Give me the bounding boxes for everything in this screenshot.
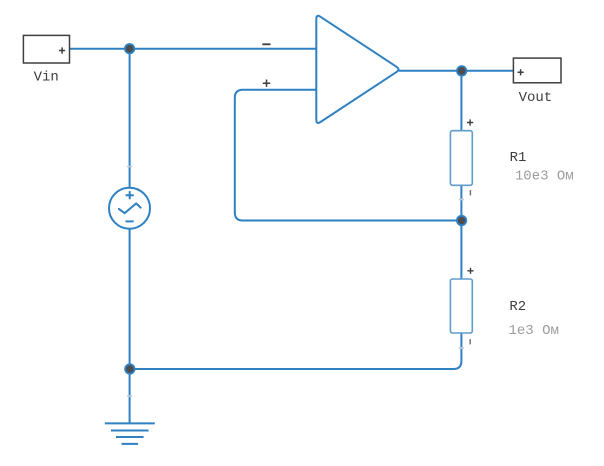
wire Vin to node A	[70, 48, 130, 50]
node B junction dot (output node)	[457, 66, 466, 75]
tick mark on wire above source V1	[127, 166, 132, 168]
minus label at op-amp inverting input	[262, 43, 270, 45]
tick mark on wire above ground	[127, 395, 132, 397]
plus mark inside Vin box	[59, 47, 65, 53]
resistor R1 body	[450, 131, 472, 186]
wire node B down to R1 top	[460, 71, 462, 131]
node D junction dot (bottom rail)	[125, 364, 134, 373]
plus polarity mark above R2	[467, 268, 473, 274]
wire feedback node C to op-amp non-inverting input	[235, 90, 462, 221]
op-amp U1 triangle	[316, 16, 398, 123]
terminal box Vout	[513, 58, 561, 83]
wire R1 bottom to node C	[460, 185, 462, 220]
minus mark inside source V1	[126, 220, 134, 222]
plus polarity mark above R1	[467, 119, 473, 125]
node A junction dot	[125, 44, 134, 53]
waveform symbol inside source V1	[119, 203, 141, 213]
wire source V1 bottom to node D	[129, 229, 131, 369]
tick mark on wire below R2	[459, 347, 464, 349]
wire node A down to source V1 top	[129, 49, 131, 188]
minus polarity tick below R1	[469, 190, 471, 195]
wire op-amp output to Vout	[399, 70, 513, 72]
terminal box Vin	[23, 35, 69, 63]
node C junction dot (feedback node)	[457, 216, 466, 225]
resistor R2 body	[450, 279, 472, 333]
wire node C down to R2 top	[460, 221, 462, 280]
plus mark inside source V1	[126, 191, 134, 199]
svg-text:1e3 Ом: 1e3 Ом	[509, 323, 559, 339]
wire node D to ground	[129, 369, 131, 423]
svg-text:Vin: Vin	[34, 70, 59, 86]
svg-text:10e3 Ом: 10e3 Ом	[515, 168, 574, 184]
svg-text:R2: R2	[509, 299, 526, 315]
wire R2 bottom to node D (bottom rail)	[130, 333, 462, 369]
ground symbol	[105, 423, 155, 444]
plus label at op-amp non-inverting input	[263, 80, 270, 87]
voltage source V1 circle	[109, 188, 150, 229]
wire node A to op-amp inverting input	[130, 48, 317, 50]
minus polarity tick below R2	[469, 339, 471, 344]
svg-text:Vout: Vout	[519, 90, 553, 106]
svg-text:R1: R1	[510, 150, 527, 166]
tick mark on wire below R1	[459, 199, 464, 201]
plus mark inside Vout box	[518, 69, 524, 75]
